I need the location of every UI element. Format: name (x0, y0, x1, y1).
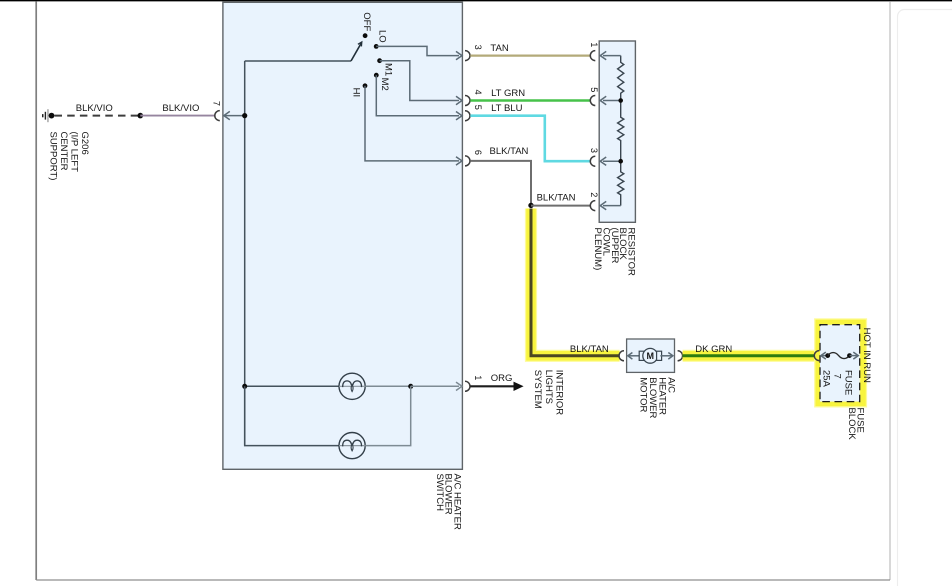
contact LO (374, 44, 379, 49)
label BLK/VIO right (162, 103, 199, 114)
motor right arrow (660, 353, 673, 360)
svg-text:LIGHTS: LIGHTS (543, 370, 554, 404)
lamp DS1 illumination (339, 373, 365, 399)
svg-text:TAN: TAN (490, 43, 508, 54)
svg-text:2: 2 (589, 192, 599, 197)
resistor pin 2 cup (590, 201, 595, 211)
label pin 6 (473, 150, 483, 155)
label pin 4 (473, 90, 483, 95)
wire LT BLU (470, 116, 590, 162)
wire BLK/VIO solid to switch pin 7 (140, 115, 215, 117)
border right line (889, 1, 891, 580)
A/C heater blower motor box (627, 339, 675, 372)
svg-text:SWITCH: SWITCH (434, 474, 445, 512)
wire bus to lamp DS2 (245, 386, 339, 445)
wire BLK/VIO dashed from G206 (55, 115, 141, 117)
wire BLK/TAN pin6 (470, 161, 531, 206)
svg-text:LO: LO (376, 30, 387, 43)
fuse terminal dot left (825, 353, 830, 358)
label BLK/TAN junction (537, 193, 576, 204)
contact HI (363, 83, 368, 88)
svg-text:1: 1 (589, 42, 599, 47)
junction node lamps out (408, 384, 413, 389)
lamp DS2 illumination (339, 433, 365, 459)
fuse right arrow (850, 352, 859, 359)
svg-text:5: 5 (473, 105, 483, 110)
fuse block highlight (818, 322, 863, 403)
switch arm (351, 42, 362, 61)
svg-text:3: 3 (589, 148, 599, 153)
svg-text:7: 7 (832, 374, 843, 379)
label BLK/TAN motor (570, 344, 609, 355)
label BLK/TAN pin6 (490, 146, 529, 157)
resistor R1 (618, 56, 624, 101)
arrow ORG to interior lights (514, 382, 524, 391)
svg-text:SYSTEM: SYSTEM (532, 370, 543, 409)
connector pin 3 cup (465, 51, 470, 61)
fuse left cup (814, 351, 819, 361)
label LT GRN (491, 88, 525, 99)
ground G206 (42, 109, 54, 122)
border bottom line (36, 579, 890, 581)
svg-text:M1: M1 (383, 63, 394, 76)
svg-text:BLK/VIO: BLK/VIO (76, 103, 113, 114)
label pin 7 (211, 101, 221, 106)
label LO (376, 30, 387, 43)
wire M1 to pin 4 (380, 61, 462, 105)
label resistor pin 2 (589, 192, 599, 197)
motor brush right (657, 351, 662, 360)
fuse F7 element (828, 353, 850, 359)
contact OFF (363, 33, 368, 38)
svg-text:25A: 25A (821, 370, 832, 388)
border top line (0, 0, 952, 2)
label HOT IN RUN (861, 328, 872, 383)
label TAN (490, 43, 508, 54)
svg-text:BLK/VIO: BLK/VIO (162, 103, 199, 114)
wire DK GRN highlighted (683, 350, 815, 362)
svg-text:HI: HI (350, 88, 361, 98)
resistor pin 5 cup (590, 96, 595, 106)
junction node BLK/TAN (528, 203, 533, 208)
connector pin 6 cup (465, 156, 470, 166)
wire TAN (470, 54, 590, 56)
motor brush left (639, 351, 644, 360)
connector pin 1 cup (465, 381, 470, 391)
junction node resistor pin5 (618, 98, 623, 103)
contact M2 (374, 73, 379, 78)
motor left arrow (628, 353, 641, 360)
svg-text:BLOCK: BLOCK (846, 408, 857, 441)
label OFF (361, 12, 372, 31)
resistor block box (599, 41, 635, 222)
label INTERIOR LIGHTS SYSTEM (532, 370, 564, 416)
connector pin 7 arrow (224, 111, 245, 119)
svg-text:BLK/TAN: BLK/TAN (570, 344, 609, 355)
wire BLK/TAN to resistor pin 2 (531, 205, 590, 207)
svg-text:BLK/TAN: BLK/TAN (537, 193, 576, 204)
wire lamp DS1 to node (365, 385, 411, 387)
connector pin 5 cup (465, 111, 470, 121)
label FUSE BLOCK (846, 408, 865, 441)
svg-text:LT BLU: LT BLU (491, 103, 522, 114)
wire ORG (470, 385, 514, 387)
svg-text:MOTOR: MOTOR (638, 377, 649, 412)
wire lamp DS2 up to node (365, 386, 411, 445)
A/C heater blower switch box (223, 2, 463, 469)
label pin 5 (473, 105, 483, 110)
resistor pin 1 cup (590, 51, 595, 61)
svg-text:SUPPORT): SUPPORT) (48, 132, 59, 181)
faint panel corner top right (898, 10, 952, 586)
ground label G206 (48, 132, 90, 181)
svg-text:M2: M2 (379, 78, 390, 91)
label BLK/VIO left (76, 103, 113, 114)
svg-text:(I/P LEFT: (I/P LEFT (69, 132, 80, 173)
wire M2 to pin 5 (376, 75, 462, 120)
wire BLK/TAN highlighted to motor (531, 209, 620, 356)
splice junction (138, 113, 144, 119)
svg-text:4: 4 (473, 90, 483, 95)
label pin 3 (473, 45, 483, 50)
svg-text:DK GRN: DK GRN (695, 344, 732, 355)
label A/C HEATER BLOWER SWITCH (434, 474, 462, 530)
label resistor pin 3 (589, 148, 599, 153)
label RESISTOR BLOCK (UPPER COWL PLENUM) (592, 228, 636, 277)
label M1 (383, 63, 394, 76)
fuse terminal dot right (847, 353, 852, 358)
svg-text:LT GRN: LT GRN (491, 88, 525, 99)
resistor pin 5 arrow (600, 96, 621, 104)
wire LT GRN (470, 99, 590, 102)
svg-text:BLK/TAN: BLK/TAN (490, 146, 529, 157)
svg-text:5: 5 (589, 87, 599, 92)
svg-text:ORG: ORG (491, 373, 513, 384)
motor left cup (619, 351, 624, 361)
label DK GRN (695, 344, 732, 355)
resistor pin 3 cup (590, 156, 595, 166)
wire node to pin 1 (411, 382, 462, 390)
label LT BLU (491, 103, 522, 114)
svg-text:PLENUM): PLENUM) (592, 228, 603, 271)
connector pin 7 cup (215, 111, 220, 121)
connector pin 4 cup (465, 96, 470, 106)
label FUSE 7 25A (821, 370, 854, 395)
resistor R3 (618, 161, 624, 205)
svg-text:6: 6 (473, 150, 483, 155)
svg-text:7: 7 (211, 101, 221, 106)
svg-text:G206: G206 (79, 132, 90, 155)
label M2 (379, 78, 390, 91)
motor right cup (678, 351, 683, 361)
svg-text:1: 1 (473, 375, 483, 380)
contact M1 (377, 58, 382, 63)
junction node pin7-bus (242, 113, 247, 118)
wire internal bus vertical (244, 61, 246, 446)
label HI (350, 88, 361, 98)
fuse left arrow (821, 352, 828, 359)
svg-text:FUSE: FUSE (843, 370, 854, 395)
motor M circle (643, 348, 658, 363)
label A/C HEATER BLOWER MOTOR (638, 377, 677, 418)
label pin 1 (473, 375, 483, 380)
label resistor pin 1 (589, 42, 599, 47)
svg-text:M: M (646, 351, 654, 361)
label resistor pin 5 (589, 87, 599, 92)
resistor pin 3 arrow (600, 157, 621, 165)
resistor R2 (618, 101, 624, 162)
wire bus to lamp DS1 (245, 385, 339, 387)
wire HI to pin 6 (365, 86, 462, 165)
wire LO to pin 3 (376, 46, 462, 59)
svg-text:HOT IN RUN: HOT IN RUN (861, 328, 872, 383)
border left line (35, 1, 37, 580)
svg-text:CENTER: CENTER (58, 132, 69, 171)
label ORG (491, 373, 513, 384)
resistor pin 2 arrow (600, 201, 621, 209)
wire feed to switch pivot (245, 60, 351, 62)
junction node bus-lamp (242, 384, 247, 389)
resistor pin 1 arrow (600, 51, 621, 59)
svg-text:INTERIOR: INTERIOR (553, 370, 564, 416)
fuse block dashed box (820, 325, 860, 402)
junction node resistor pin3 (618, 159, 623, 164)
svg-text:OFF: OFF (361, 12, 372, 31)
svg-text:3: 3 (473, 45, 483, 50)
